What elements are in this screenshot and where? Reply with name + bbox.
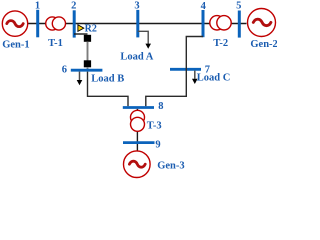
svg-text:4: 4 (201, 1, 207, 12)
svg-text:T-3: T-3 (147, 121, 162, 132)
bus 4 (202, 10, 205, 37)
generator G1 circle (2, 11, 27, 36)
svg-text:Gen-1: Gen-1 (2, 40, 29, 51)
wire bus3 to load A arrow (138, 31, 148, 44)
wire bus2 to breaker stub (74, 33, 88, 35)
svg-text:Gen-3: Gen-3 (157, 160, 184, 171)
wire main horizontal bus2-bus4 (28, 23, 247, 25)
bus 8 (123, 106, 154, 109)
svg-text:6: 6 (62, 64, 67, 75)
svg-text:9: 9 (155, 139, 160, 150)
load B arrow stem (79, 72, 81, 80)
breaker square top (84, 35, 91, 42)
bus 2 (73, 10, 76, 37)
wire bus8 to T3 to bus9 to G3 (136, 109, 138, 151)
svg-text:T-1: T-1 (48, 38, 63, 49)
svg-text:Gen-2: Gen-2 (250, 39, 277, 50)
bus 5 (238, 11, 241, 38)
generator G3 circle (124, 151, 151, 178)
wire breaker to bus6 (87, 67, 89, 70)
svg-text:3: 3 (134, 0, 139, 11)
relay marker R2 triangle (78, 25, 84, 32)
wire bus6 down to bus8 (88, 72, 129, 107)
wire bus4 down through bus7 to bus8 (146, 37, 203, 107)
transformer T1 (46, 17, 66, 30)
svg-text:T-2: T-2 (213, 38, 228, 49)
bus 6 (71, 69, 103, 72)
svg-text:Load A: Load A (120, 52, 153, 63)
load A arrowhead (145, 44, 151, 49)
svg-text:1: 1 (35, 0, 40, 11)
svg-text:8: 8 (158, 101, 163, 112)
bus 9 (123, 141, 155, 144)
svg-text:R2: R2 (85, 24, 97, 35)
bus 7 (170, 68, 201, 71)
svg-text:Load C: Load C (197, 73, 231, 84)
transformer T2 (210, 16, 231, 30)
svg-text:2: 2 (71, 1, 76, 12)
breaker square bottom (84, 60, 91, 67)
bus 1 (36, 10, 39, 38)
generator G2 circle (248, 9, 276, 37)
transformer T3 (131, 110, 145, 131)
svg-text:5: 5 (236, 0, 241, 11)
load C arrowhead (192, 79, 198, 84)
breaker gray link (87, 42, 89, 61)
load C arrow stem (194, 71, 196, 79)
bus 3 (136, 10, 139, 38)
svg-text:Load B: Load B (91, 74, 124, 85)
load B arrowhead (77, 80, 83, 85)
